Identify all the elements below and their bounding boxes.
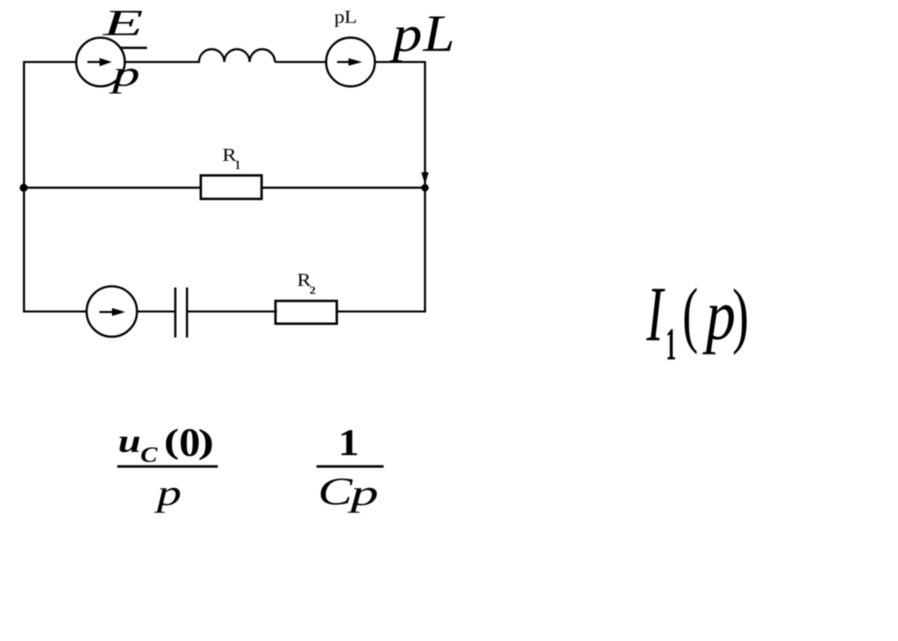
wire capacitor to resistor R2: [187, 310, 277, 312]
inductor L coil: [199, 49, 275, 62]
node right junction dot: [421, 184, 428, 191]
wire middle right segment: [261, 187, 425, 189]
label R2 - letter R: [298, 274, 311, 286]
label pL large right of source U2 - letter p: [389, 27, 420, 62]
source U2 (pL) circle: [326, 38, 375, 87]
formula 1/Cp - numerator 1: [341, 430, 357, 455]
formula uC(0)/p - fraction bar: [117, 465, 218, 468]
formula I1(p) - subscript 1: [667, 329, 675, 359]
wire left vertical: [23, 61, 25, 313]
label R1 - subscript 1: [236, 161, 240, 169]
label p denominator of fraction E/p: [109, 69, 138, 94]
wire right vertical: [424, 61, 426, 313]
formula uC(0)/p - subscript C: [141, 447, 157, 462]
node left junction dot: [20, 184, 28, 192]
formula uC(0)/p - denominator p: [154, 488, 180, 513]
wire resistor R2 to bottom-right corner: [336, 310, 426, 312]
formula I1(p) - left parenthesis: [685, 288, 697, 355]
arrow inside source U1: [87, 61, 100, 63]
wire source U2 to top-right corner: [376, 61, 427, 63]
formula I1(p) - letter p: [702, 305, 733, 354]
formula I1(p) - letter I: [646, 289, 665, 340]
formula uC(0)/p - digit 0: [181, 429, 199, 456]
formula uC(0)/p - right parenthesis: [199, 429, 211, 460]
source U3 circle: [87, 286, 137, 336]
capacitor C left plate: [174, 288, 176, 338]
label pL large right of source U2 - letter L: [423, 16, 453, 50]
arrow inside source U2: [337, 61, 350, 63]
wire bottom left segment: [24, 310, 87, 312]
formula 1/Cp - letter p: [347, 488, 376, 513]
wire source U3 to capacitor: [138, 310, 176, 312]
label pL small above source U2 - letter L: [345, 11, 356, 23]
formula uC(0)/p - left parenthesis: [166, 429, 178, 460]
wire inductor to source U2: [275, 61, 326, 63]
label E numerator of fraction E/p: [102, 11, 142, 35]
capacitor C right plate: [186, 288, 188, 338]
arrow inside source U3: [100, 311, 114, 313]
formula 1/Cp - letter C: [321, 479, 353, 505]
fraction bar of E/p: [120, 47, 147, 49]
resistor R1 box: [201, 175, 262, 199]
arrow down on right vertical wire: [421, 172, 428, 184]
source U1 (E/p) circle: [76, 38, 125, 87]
label R1 - letter R: [223, 149, 237, 161]
resistor R2 box: [276, 301, 337, 324]
formula uC(0)/p - letter u: [120, 437, 140, 453]
label pL small above source U2 - letter p: [334, 14, 343, 27]
formula I1(p) - right parenthesis: [734, 288, 747, 355]
wire source U1 to inductor: [125, 61, 200, 63]
wire top-left horizontal: [24, 61, 76, 63]
label R2 - subscript 2: [310, 287, 315, 294]
formula 1/Cp - fraction bar: [317, 465, 384, 468]
wire middle left segment: [24, 187, 202, 189]
